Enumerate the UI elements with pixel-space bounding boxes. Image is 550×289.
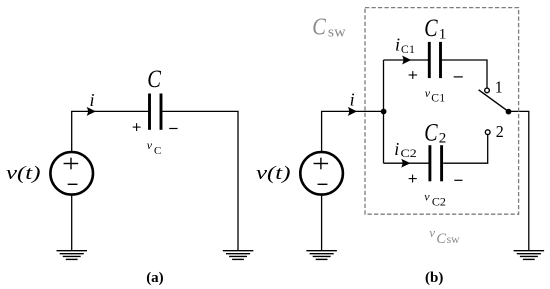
svg-text:C: C <box>312 13 327 40</box>
svg-text:i: i <box>395 35 400 55</box>
svg-text:i: i <box>394 139 399 159</box>
svg-text:C2: C2 <box>401 146 417 160</box>
svg-text:i: i <box>90 90 95 110</box>
svg-text:2: 2 <box>439 131 447 147</box>
svg-text:v(t): v(t) <box>256 164 291 184</box>
svg-text:C2: C2 <box>432 197 446 209</box>
svg-text:C: C <box>424 119 438 147</box>
svg-text:(b): (b) <box>425 270 443 286</box>
svg-text:C: C <box>436 231 446 247</box>
svg-text:i: i <box>350 90 355 110</box>
svg-text:C: C <box>424 14 438 42</box>
svg-text:1: 1 <box>439 27 447 43</box>
svg-text:C: C <box>154 145 161 157</box>
svg-text:v(t): v(t) <box>6 164 41 184</box>
svg-text:v: v <box>429 225 435 240</box>
svg-text:(a): (a) <box>146 270 164 286</box>
svg-text:sw: sw <box>447 232 460 246</box>
svg-text:2: 2 <box>496 122 504 141</box>
svg-text:v: v <box>425 86 431 100</box>
svg-text:v: v <box>424 190 430 204</box>
svg-text:C1: C1 <box>431 92 445 104</box>
svg-text:C1: C1 <box>401 44 415 56</box>
svg-text:v: v <box>147 138 153 152</box>
svg-text:sw: sw <box>328 24 346 40</box>
svg-text:C: C <box>147 65 161 92</box>
svg-text:1: 1 <box>495 77 503 96</box>
